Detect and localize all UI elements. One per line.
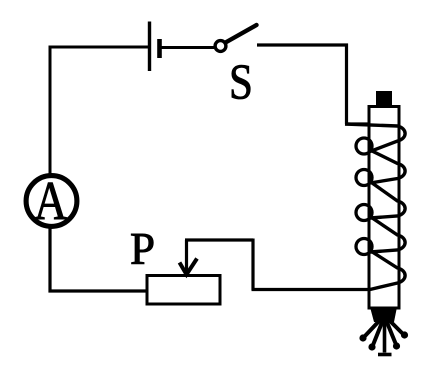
nail 4 — [386, 320, 396, 345]
wire bottom to coil — [252, 288, 372, 291]
nail 1 — [365, 319, 382, 337]
wire top-left horizontal — [49, 46, 150, 49]
svg-text:A: A — [34, 170, 68, 231]
battery B short plate — [157, 39, 162, 58]
nail 2 — [373, 320, 383, 345]
wire bottom-left horizontal to rheostat — [49, 289, 149, 292]
switch S pivot circle — [215, 41, 226, 52]
wire switch to top-right corner — [257, 43, 348, 46]
wire right vertical down — [345, 44, 348, 125]
svg-text:S: S — [229, 54, 253, 110]
electromagnet core — [369, 107, 399, 309]
switch S lever — [226, 25, 257, 43]
wire battery to switch — [161, 46, 214, 49]
coil left loop 1 — [356, 138, 372, 154]
rheostat P body — [147, 276, 220, 305]
coil winding right arcs and diagonals — [345, 124, 405, 290]
nail 5 — [388, 319, 403, 334]
wire into coil top — [345, 122, 370, 125]
nail 3 — [383, 320, 387, 353]
wire wiper horizontal — [185, 238, 253, 241]
wire wiper right vertical — [251, 239, 254, 291]
coil left loop 4 — [356, 239, 372, 255]
svg-text:P: P — [130, 224, 155, 274]
electromagnet bottom pole — [370, 307, 397, 322]
coil left loop 3 — [356, 205, 372, 221]
battery B long plate — [148, 22, 151, 72]
wire left vertical (top) — [49, 46, 52, 177]
ammeter A circle — [26, 176, 77, 227]
coil left loop 2 — [356, 170, 372, 186]
electromagnet top cap — [376, 91, 392, 106]
wire left vertical (bottom) — [48, 227, 51, 293]
rheostat wiper arrow — [185, 240, 188, 272]
